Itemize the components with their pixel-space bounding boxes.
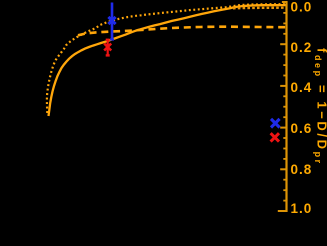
right axis line (285, 1, 287, 212)
tick labels (291, 0, 313, 216)
legend blue X (271, 119, 280, 128)
svg-text:0.0: 0.0 (291, 0, 313, 14)
red data point: error bar (107, 39, 109, 57)
red top cap (106, 39, 110, 41)
blue X marker (108, 17, 115, 24)
solid curve (49, 5, 288, 116)
minor ticks (283, 13, 287, 201)
block dashes top right (233, 7, 287, 10)
svg-text:0.2: 0.2 (291, 40, 313, 55)
legend red X (271, 133, 279, 141)
svg-text:1.0: 1.0 (291, 201, 313, 216)
red bottom cap (106, 54, 110, 56)
major ticks (278, 2, 288, 211)
svg-text:0.4: 0.4 (291, 80, 313, 95)
dotted curve (47, 4, 287, 113)
svg-text:0.6: 0.6 (291, 121, 313, 136)
y axis title (rotated) (313, 48, 327, 166)
red X marker (104, 44, 111, 51)
svg-text:0.8: 0.8 (291, 162, 313, 177)
dashed line (78, 27, 287, 36)
blue bottom cap (110, 38, 114, 40)
blue data point: error bar (111, 3, 114, 41)
